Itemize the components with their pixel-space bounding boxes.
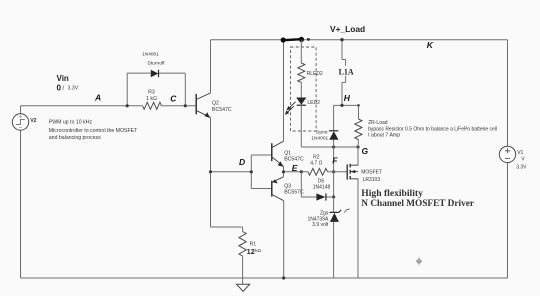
svg-text:A: A: [94, 93, 101, 103]
dashed box LED indicator: [291, 47, 317, 131]
svg-text:LED2: LED2: [307, 100, 320, 106]
junction dot base rail: [250, 170, 253, 173]
wire LED branch upper: [300, 40, 302, 63]
wire F down to D6 line: [333, 172, 335, 197]
label R3: [146, 90, 157, 103]
voltage source V2 (PWM): [12, 114, 28, 130]
diode Dprot 1N4001: [329, 131, 339, 140]
svg-text:V2: V2: [30, 118, 36, 124]
wire D6 branch: [301, 172, 333, 197]
wire Dprot to link: [333, 140, 335, 147]
svg-text:V1: V1: [517, 150, 523, 156]
svg-text:Microcontroller to control the: Microcontroller to control the MOSFET: [49, 128, 138, 134]
label Zgs: [307, 210, 329, 228]
svg-text:4.7 Ω: 4.7 Ω: [310, 160, 322, 166]
svg-text:ZR-Load: ZR-Load: [368, 120, 388, 126]
wire node D: [211, 171, 252, 173]
node E: [292, 163, 298, 173]
wire Dprot node down to F: [333, 147, 335, 172]
wire R2 to gate: [328, 171, 348, 173]
svg-text:0: 0: [57, 83, 62, 92]
svg-text:1N4001: 1N4001: [142, 51, 159, 57]
diode D6 1N4148: [316, 193, 326, 200]
junction dots diode loop: [126, 104, 187, 107]
label Vin: [57, 74, 69, 83]
label D6: [313, 179, 331, 191]
svg-text:3.3V: 3.3V: [68, 86, 79, 92]
svg-text:H: H: [344, 93, 351, 103]
wire Q3 collector to bottom rail: [283, 201, 285, 278]
resistor R2: [308, 168, 328, 175]
svg-text:RLED2: RLED2: [307, 71, 323, 77]
label PWM up to 10 kHz: [49, 120, 93, 126]
annotation High flexibility: [361, 188, 474, 209]
svg-text:D: D: [239, 157, 245, 167]
inductor L1A bump: [342, 60, 346, 83]
svg-text:C: C: [170, 93, 177, 103]
node K: [427, 40, 434, 50]
ground symbol: [237, 278, 250, 291]
wire MOSFET source to rail: [357, 179, 359, 278]
svg-text:Q2: Q2: [212, 101, 219, 107]
svg-text:1N4148: 1N4148: [313, 184, 331, 190]
wire Q1 collector riser: [283, 40, 285, 142]
MOSFET LR3103: [347, 164, 358, 180]
wire H right leg: [358, 105, 360, 119]
label microcontroller note: [49, 128, 138, 141]
junction dot H: [340, 104, 359, 107]
node C: [170, 93, 177, 103]
svg-text:N Channel MOSFET Driver: N Channel MOSFET Driver: [361, 199, 474, 209]
label R2: [310, 154, 322, 166]
label V2: [30, 118, 36, 124]
svg-text:BC547C: BC547C: [284, 157, 304, 163]
svg-text:PWM up to 10 kHz: PWM up to 10 kHz: [49, 120, 93, 126]
junction dot L1A at rail: [340, 38, 343, 41]
wire H crossbar: [334, 104, 359, 106]
zener Zgs 1N4739A: [329, 209, 349, 222]
label Dprot: [311, 129, 328, 141]
svg-text:E: E: [292, 163, 298, 173]
wire LED2 down to node: [300, 105, 302, 147]
svg-text:Vin: Vin: [57, 74, 69, 83]
junction dot D6 line: [332, 195, 335, 198]
svg-text:1N4001: 1N4001: [311, 135, 328, 141]
svg-text:3.9 volt: 3.9 volt: [312, 222, 329, 228]
wire R1 to bottom rail: [242, 256, 244, 278]
label R1: [247, 241, 262, 256]
label Q2: [212, 101, 232, 114]
label 1N4001 Dturnoff: [142, 51, 165, 66]
svg-text:K: K: [427, 40, 434, 50]
node G: [362, 146, 369, 156]
svg-text:R3: R3: [148, 90, 155, 96]
label 0 / 3.3V: [57, 83, 79, 92]
voltage source V1: [499, 146, 515, 162]
resistor R1: [239, 232, 246, 257]
wire Q2 emitter to R1: [211, 227, 243, 232]
transistor Q2 BC547C: [196, 93, 210, 118]
svg-text:Q1: Q1: [284, 150, 291, 156]
wire input A to C to Q2 base: [21, 105, 197, 107]
LED LED2: [296, 98, 306, 106]
svg-text:12: 12: [247, 247, 255, 256]
svg-text:V+_Load: V+_Load: [330, 24, 365, 34]
wire diode loop: [127, 73, 185, 106]
svg-text:1 kΩ: 1 kΩ: [146, 96, 157, 102]
wire MOSFET drain: [357, 147, 359, 165]
resistor RLED2: [298, 63, 305, 83]
junction dot D6 branch top: [300, 170, 303, 173]
wire Q2 collector to rail: [210, 40, 212, 93]
label LED2: [307, 100, 320, 106]
wire left edge (V2 to rails): [20, 106, 22, 278]
wire right edge (rail to V1 and V1 to bottom): [507, 40, 509, 278]
wire Zgs to bottom rail: [333, 222, 335, 278]
svg-text:Dturnoff: Dturnoff: [148, 61, 166, 67]
label RLED2: [307, 71, 323, 77]
transistor Q3 BC557C: [272, 172, 284, 201]
svg-text:Dprot: Dprot: [316, 129, 328, 135]
junction dot F: [332, 170, 335, 173]
svg-text:BC547C: BC547C: [212, 107, 232, 113]
svg-text:G: G: [362, 146, 369, 156]
label ZR-Load note: [368, 120, 497, 138]
svg-text:and balancing process: and balancing process: [49, 135, 101, 141]
svg-text:Q3: Q3: [284, 183, 291, 189]
grey diamond marker: [416, 257, 422, 267]
wire node E to R2: [284, 171, 309, 173]
wire top rail V+_Load: [211, 39, 508, 41]
node A: [94, 93, 101, 103]
label Q3: [284, 183, 304, 195]
label L1A: [337, 66, 355, 77]
wire bottom rail: [21, 277, 508, 279]
svg-text:kΩ: kΩ: [255, 248, 261, 253]
junction dot Q3 collector at rail: [282, 276, 285, 279]
wire RLED2 to LED2: [300, 83, 302, 98]
wire H left leg: [333, 105, 335, 130]
resistor R3: [143, 102, 162, 109]
diode Dturnoff: [151, 70, 159, 77]
svg-text:F: F: [332, 155, 338, 165]
junction dot E: [282, 170, 285, 173]
svg-text:3.3V: 3.3V: [516, 164, 527, 170]
wire Q2 emitter down: [210, 118, 212, 228]
transistor Q1 BC547C: [272, 141, 284, 172]
wire base rail Q1 Q3: [251, 155, 271, 189]
wire L1A riser: [341, 40, 343, 60]
resistor ZR-Load: [355, 119, 362, 140]
label MOSFET LR3103: [361, 170, 382, 183]
junction dots on link: [332, 145, 360, 148]
node D: [239, 157, 245, 167]
wire LED/Dprot/drain link: [301, 146, 358, 148]
node F: [332, 155, 338, 165]
wire D6 node down to Zgs: [333, 197, 335, 212]
label Q1: [284, 150, 304, 162]
svg-text:I about 7 Amp: I about 7 Amp: [368, 132, 400, 138]
svg-text:High flexibility: High flexibility: [361, 188, 423, 199]
svg-text:MOSFET: MOSFET: [361, 170, 382, 176]
wire L1A lower: [341, 82, 343, 105]
label V1: [516, 150, 527, 170]
svg-text:L1A: L1A: [339, 68, 354, 77]
LED2 emission arrows: [285, 102, 296, 115]
label V+_Load: [330, 24, 365, 34]
junction dot D wire: [209, 170, 212, 173]
svg-text:LR3103: LR3103: [363, 177, 381, 183]
wire ZR to drain node: [357, 140, 359, 148]
node H: [344, 93, 351, 103]
annotation thick jumper on rail: [281, 37, 310, 43]
